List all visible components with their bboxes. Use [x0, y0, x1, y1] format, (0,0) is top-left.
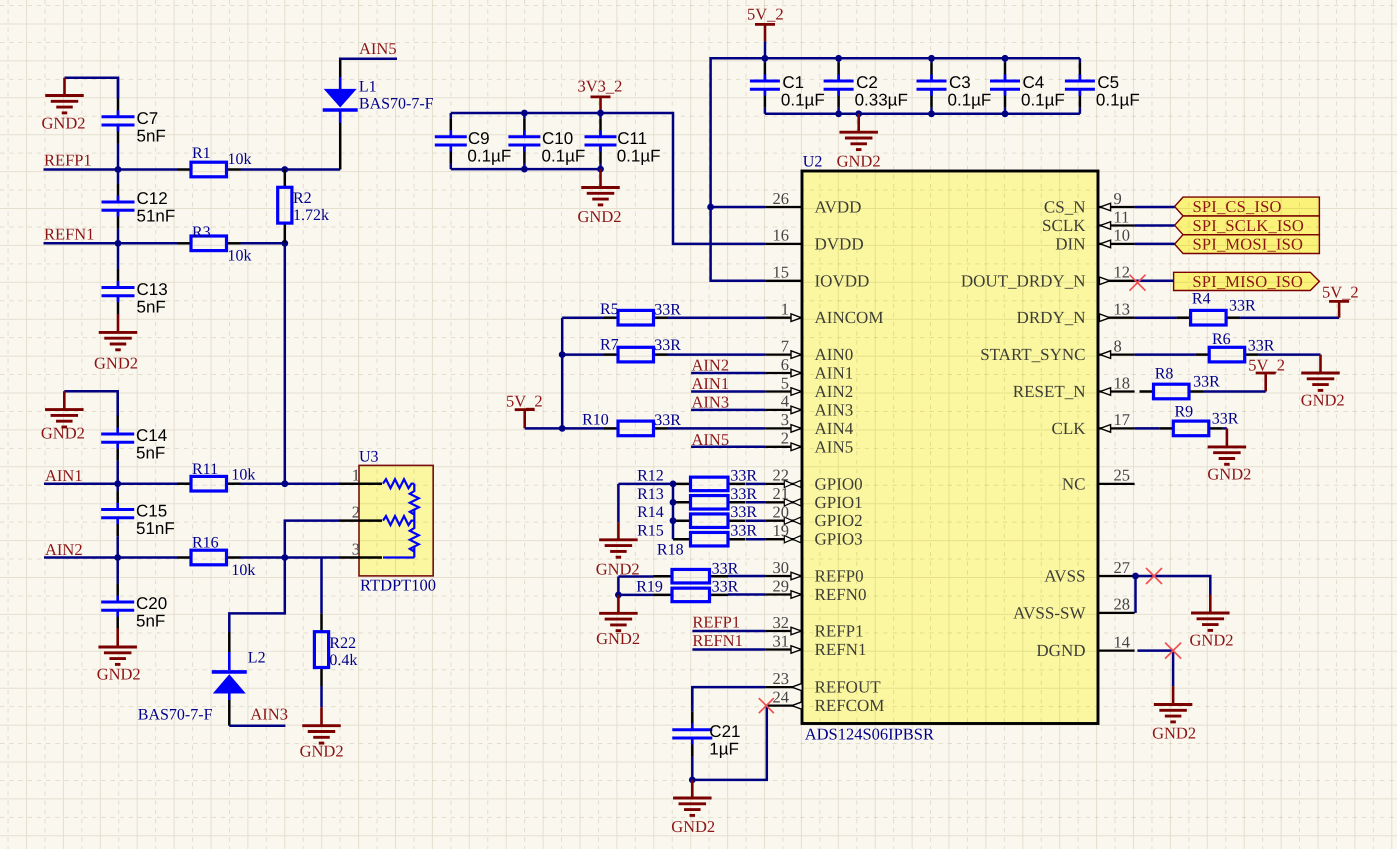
junction gpio bus R12	[670, 481, 677, 488]
svg-text:GND2: GND2	[1207, 464, 1251, 483]
no-ERC pin 27	[1146, 568, 1162, 584]
capacitor C13	[102, 243, 135, 314]
power symbol 5V_2 mid-right	[1256, 373, 1276, 392]
U2 pin 31 (REFN1)	[765, 646, 802, 654]
wire REFCOM down	[692, 706, 767, 780]
port SPI_MISO_ISO	[1174, 272, 1320, 290]
wire REFN1 vertical to AIN1	[284, 243, 287, 483]
junction bottom bus x=838.6	[835, 110, 842, 117]
svg-text:10k: 10k	[231, 467, 255, 484]
ground GND2 under C2	[839, 114, 878, 150]
resistor R3	[177, 236, 241, 251]
svg-text:ADS124S06IPBSR: ADS124S06IPBSR	[805, 725, 934, 744]
wire R19 row29 left	[618, 594, 653, 597]
wire R1 to L1	[241, 168, 341, 171]
power symbol 5V_2 mid-left	[515, 410, 535, 429]
U2 pin 11 (SCLK)	[1098, 222, 1135, 230]
wire AIN1	[44, 482, 177, 485]
svg-text:U2: U2	[803, 154, 823, 171]
resistor R8	[1140, 384, 1204, 399]
port SPI_CS_ISO	[1175, 197, 1320, 216]
resistor R9	[1159, 421, 1223, 436]
capacitor C14	[101, 391, 134, 484]
junction C11 bottom	[597, 166, 604, 173]
svg-text:C14: C14	[136, 426, 167, 445]
svg-text:AIN3: AIN3	[815, 400, 854, 419]
svg-text:C20: C20	[136, 594, 167, 613]
svg-text:5nF: 5nF	[137, 297, 166, 316]
svg-text:BAS70-7-F: BAS70-7-F	[138, 707, 213, 724]
svg-text:R18: R18	[657, 542, 684, 559]
wire gnd to C14 top	[64, 391, 117, 416]
svg-text:DOUT_DRDY_N: DOUT_DRDY_N	[961, 271, 1086, 290]
svg-text:2: 2	[781, 429, 789, 448]
U2 pin 28 (AVSS-SW)	[1098, 612, 1135, 614]
svg-text:33R: 33R	[1193, 374, 1220, 391]
svg-text:AIN1: AIN1	[692, 374, 730, 393]
junction AIN2/L2 branch	[281, 554, 288, 561]
svg-text:10k: 10k	[228, 151, 252, 168]
svg-text:C13: C13	[137, 280, 168, 299]
U2 pin 5 (AIN2)	[765, 388, 802, 396]
U2 pin 17 (CLK)	[1098, 425, 1135, 433]
svg-text:AVDD: AVDD	[815, 198, 862, 217]
ground GND2 gpio	[599, 522, 638, 557]
U2 pin 22 (GPIO0)	[765, 480, 802, 487]
svg-text:R15: R15	[637, 523, 664, 540]
svg-text:R9: R9	[1175, 404, 1194, 421]
resistor R2	[278, 170, 292, 244]
wire AIN2 to R22	[320, 558, 323, 614]
svg-text:20: 20	[773, 503, 790, 522]
svg-text:0.1µF: 0.1µF	[1021, 91, 1065, 110]
resistor R16	[177, 550, 241, 565]
U2 pin 13 (DRDY_N)	[1098, 314, 1135, 322]
resistor R22	[314, 613, 328, 686]
svg-text:R19: R19	[636, 578, 663, 595]
wire AIN3	[229, 724, 285, 727]
svg-text:AIN5: AIN5	[359, 39, 397, 58]
wire gpio gnd drop	[617, 484, 620, 522]
svg-text:AIN2: AIN2	[45, 540, 83, 559]
resistor R10	[604, 421, 668, 436]
svg-text:3V3_2: 3V3_2	[578, 77, 623, 96]
svg-text:SPI_SCLK_ISO: SPI_SCLK_ISO	[1193, 216, 1305, 235]
U2 pin 10 (DIN)	[1098, 240, 1135, 248]
svg-text:REFN1: REFN1	[815, 640, 867, 659]
svg-text:5: 5	[781, 373, 789, 392]
wire AVDD branch	[711, 206, 766, 209]
svg-text:CS_N: CS_N	[1044, 198, 1086, 217]
svg-text:0.1µF: 0.1µF	[1096, 91, 1140, 110]
wire R12 to pin	[746, 483, 765, 486]
svg-text:33R: 33R	[730, 467, 757, 484]
U2 pin 9 (CS_N)	[1098, 203, 1135, 211]
junction bottom bus x=931.5	[928, 110, 935, 117]
svg-text:C7: C7	[137, 109, 159, 128]
svg-text:REFN1: REFN1	[44, 224, 94, 243]
U2 pin 2 (AIN5)	[765, 443, 802, 451]
svg-text:33R: 33R	[1212, 411, 1239, 428]
wire AIN2	[44, 556, 177, 559]
svg-text:C21: C21	[709, 722, 740, 741]
wire REFP1	[44, 168, 178, 171]
svg-text:18: 18	[1114, 373, 1131, 392]
resistor R5	[604, 310, 668, 325]
op-amp U2 body	[802, 171, 1098, 724]
svg-text:10k: 10k	[228, 248, 252, 265]
svg-text:7: 7	[781, 336, 789, 355]
component U3 body	[359, 465, 433, 576]
svg-text:51nF: 51nF	[136, 519, 175, 538]
wire R8 to 5V	[1203, 390, 1266, 393]
capacitor C7	[102, 78, 135, 170]
wire R14 to pin	[746, 519, 765, 522]
wire DGND to gnd	[1137, 651, 1173, 687]
junction R3/R2	[281, 240, 288, 247]
svg-text:28: 28	[1114, 595, 1131, 614]
svg-text:8: 8	[1114, 336, 1122, 355]
U2 pin 21 (GPIO1)	[765, 499, 802, 506]
U2 pin 14 (DGND)	[1098, 649, 1135, 651]
wire AIN5 to pin2	[691, 446, 765, 449]
svg-text:R4: R4	[1192, 291, 1211, 308]
svg-text:R10: R10	[582, 412, 609, 429]
svg-text:31: 31	[773, 631, 790, 650]
power symbol 3V3_2	[591, 97, 611, 114]
no-ERC pin 24	[759, 698, 774, 713]
junction gpio bus R14	[670, 517, 677, 524]
junction C10 top	[521, 110, 528, 117]
svg-text:SPI_MISO_ISO: SPI_MISO_ISO	[1192, 272, 1303, 291]
resistor R7	[604, 347, 668, 362]
svg-text:6: 6	[781, 355, 789, 374]
svg-text:SPI_MOSI_ISO: SPI_MOSI_ISO	[1193, 235, 1304, 254]
capacitor C3	[917, 58, 947, 114]
wire R13 to pin	[746, 501, 765, 504]
wire R7 left	[562, 353, 604, 356]
svg-text:33R: 33R	[730, 486, 757, 503]
capacitor C21	[672, 688, 712, 780]
ground GND2 under C11	[581, 169, 620, 205]
svg-text:AVSS-SW: AVSS-SW	[1013, 603, 1086, 622]
wire AVSS to gnd	[1136, 576, 1211, 595]
svg-text:23: 23	[773, 669, 790, 688]
svg-text:GND2: GND2	[671, 817, 715, 836]
U2 pin 4 (AIN3)	[765, 406, 802, 414]
ground GND2 under R19	[599, 595, 638, 631]
junction bottom bus x=858.7	[855, 110, 862, 117]
wire R4 to 5V	[1240, 316, 1339, 319]
svg-text:0.4k: 0.4k	[329, 652, 357, 669]
wire riser R5-R10	[561, 318, 564, 429]
wire 3V3 bus bottom	[451, 168, 601, 171]
U2 pin 30 (REFP0)	[765, 572, 802, 580]
svg-text:12: 12	[1114, 263, 1131, 282]
resistor R6	[1195, 347, 1259, 362]
ground GND2 under R6	[1301, 355, 1340, 391]
svg-text:R7: R7	[600, 337, 619, 354]
capacitor C4	[990, 58, 1020, 114]
junction REFP1/C7	[115, 166, 122, 173]
svg-text:AIN1: AIN1	[815, 364, 854, 383]
svg-text:0.1µF: 0.1µF	[542, 146, 586, 165]
svg-text:19: 19	[773, 521, 790, 540]
wire AIN2 to pin6	[691, 372, 765, 375]
svg-text:5V_2: 5V_2	[506, 392, 543, 411]
ground GND2 under C20	[98, 629, 137, 665]
diode L2	[212, 632, 247, 726]
svg-text:C3: C3	[949, 73, 971, 92]
svg-text:REFN1: REFN1	[692, 631, 742, 650]
svg-text:SCLK: SCLK	[1042, 216, 1086, 235]
junction gpio bus R13	[670, 499, 677, 506]
diode L1	[323, 60, 358, 170]
svg-text:33R: 33R	[654, 302, 681, 319]
svg-text:REFP1: REFP1	[815, 622, 864, 641]
wire R9 to gnd	[1223, 427, 1227, 430]
wire 5V stem	[764, 41, 767, 58]
svg-text:24: 24	[773, 687, 790, 706]
wire R19 left bus	[617, 577, 620, 595]
svg-text:DIN: DIN	[1055, 234, 1085, 253]
resistor R15	[673, 532, 746, 546]
svg-text:25: 25	[1114, 466, 1131, 485]
svg-text:11: 11	[1114, 207, 1130, 226]
svg-text:GPIO1: GPIO1	[815, 493, 863, 512]
ground GND2 under C21	[673, 780, 712, 816]
svg-text:33R: 33R	[730, 523, 757, 540]
capacitor C5	[1065, 58, 1095, 114]
U2 pin 16 (DVDD)	[765, 243, 802, 245]
svg-text:0.1µF: 0.1µF	[948, 91, 992, 110]
U2 pin 12 (DOUT_DRDY_N)	[1098, 277, 1135, 285]
wire R3 to R2 and down	[241, 242, 285, 245]
svg-text:GND2: GND2	[1301, 390, 1345, 409]
U2 pin 25 (NC)	[1098, 483, 1135, 485]
svg-text:GND2: GND2	[300, 742, 344, 761]
svg-text:AIN3: AIN3	[250, 704, 288, 723]
wire R19 row30 left	[618, 575, 653, 578]
U2 pin 32 (REFP1)	[765, 627, 802, 635]
U2 pin 24 (REFCOM)	[765, 702, 802, 710]
wire AIN1 to pin5	[691, 390, 765, 393]
svg-text:1: 1	[352, 466, 360, 485]
svg-text:22: 22	[773, 466, 790, 485]
U2 pin 29 (REFN0)	[765, 591, 802, 599]
ground GND2 top-left	[45, 78, 84, 113]
wire 5V bus top	[711, 58, 1080, 280]
svg-text:14: 14	[1114, 632, 1131, 651]
junction top bus x=838.6	[835, 55, 842, 62]
svg-text:SPI_CS_ISO: SPI_CS_ISO	[1193, 197, 1282, 216]
U2 pin 18 (RESET_N)	[1098, 388, 1135, 396]
junction AVDD	[707, 204, 714, 211]
resistor R13	[673, 496, 746, 510]
svg-text:33R: 33R	[654, 412, 681, 429]
svg-text:REFOUT: REFOUT	[815, 678, 882, 697]
svg-text:DRDY_N: DRDY_N	[1017, 308, 1086, 327]
junction C21/gnd	[689, 777, 696, 784]
capacitor C20	[101, 558, 134, 629]
svg-text:GND2: GND2	[578, 207, 622, 226]
junction riser/R10	[559, 425, 566, 432]
wire AIN5 top	[340, 59, 397, 60]
wire REFOUT to C21	[692, 687, 765, 704]
resistor R4	[1177, 310, 1241, 325]
junction REFN1/C12	[115, 240, 122, 247]
svg-text:0.1µF: 0.1µF	[617, 146, 661, 165]
ground GND2 mid-left	[45, 391, 84, 427]
svg-text:0.1µF: 0.1µF	[467, 146, 511, 165]
svg-text:GND2: GND2	[596, 629, 640, 648]
capacitor C15	[101, 484, 134, 558]
svg-text:21: 21	[773, 484, 790, 503]
U2 pin 15 (IOVDD)	[765, 280, 802, 282]
wire R11 to U3 pin1	[241, 482, 340, 485]
U3 pin 2	[339, 519, 382, 522]
U3 pin 3	[339, 556, 382, 559]
svg-text:AIN0: AIN0	[815, 345, 854, 364]
svg-text:CLK: CLK	[1052, 419, 1087, 438]
wire pin17 to R9	[1135, 427, 1160, 430]
svg-text:5V_2: 5V_2	[1248, 355, 1285, 374]
svg-text:U3: U3	[359, 449, 379, 466]
wire R7 to AIN0	[668, 353, 766, 356]
svg-text:R5: R5	[600, 301, 619, 318]
junction AIN2/C15	[114, 554, 121, 561]
svg-text:5nF: 5nF	[137, 126, 166, 145]
wire CS_N to port	[1135, 206, 1175, 209]
svg-text:R12: R12	[637, 467, 664, 484]
wire pin13 to R4	[1135, 316, 1177, 319]
ground GND2 under C13	[99, 314, 138, 350]
svg-text:AIN1: AIN1	[45, 466, 83, 485]
U2 pin 20 (GPIO2)	[765, 517, 802, 524]
svg-text:GND2: GND2	[94, 354, 138, 373]
svg-text:32: 32	[773, 613, 790, 632]
wire pin8 to R6	[1135, 353, 1196, 356]
wire 5V bus bottom	[765, 113, 1080, 116]
junction riser/R7	[559, 351, 566, 358]
svg-text:GND2: GND2	[97, 665, 141, 684]
svg-text:R3: R3	[192, 224, 211, 241]
U2 pin 1 (AINCOM)	[765, 314, 802, 322]
svg-text:C11: C11	[617, 129, 647, 148]
svg-text:30: 30	[773, 558, 790, 577]
svg-text:R2: R2	[293, 190, 312, 207]
svg-text:REFN0: REFN0	[815, 585, 867, 604]
wire DIN to port	[1135, 243, 1175, 246]
capacitor C10	[508, 113, 540, 169]
resistor R12	[673, 477, 746, 491]
wire R10 to AIN4	[668, 427, 766, 430]
svg-text:33R: 33R	[712, 579, 739, 596]
svg-text:GPIO2: GPIO2	[815, 511, 863, 530]
svg-text:5V_2: 5V_2	[747, 5, 784, 24]
wire SCLK to port	[1135, 224, 1175, 227]
svg-text:C1: C1	[782, 73, 804, 92]
U2 pin 8 (START_SYNC)	[1098, 351, 1135, 359]
junction top bus x=764.9	[762, 55, 769, 62]
ground GND2 under DGND	[1154, 686, 1193, 722]
U3 internal RTD element	[383, 479, 419, 557]
svg-text:GND2: GND2	[1152, 724, 1196, 743]
U2 pin 27 (AVSS)	[1098, 575, 1135, 577]
svg-text:GPIO3: GPIO3	[815, 530, 863, 549]
power symbol 5V_2 right	[1329, 301, 1349, 317]
resistor R11	[177, 476, 241, 491]
wire gnd to C7 top	[65, 78, 119, 99]
svg-text:L2: L2	[248, 650, 266, 667]
svg-text:REFCOM: REFCOM	[815, 696, 885, 715]
svg-text:0.33µF: 0.33µF	[855, 91, 908, 110]
svg-text:C2: C2	[856, 73, 878, 92]
U2 pin 26 (AVDD)	[765, 206, 802, 208]
junction top bus x=931.5	[928, 55, 935, 62]
U2 pin 3 (AIN4)	[765, 425, 802, 433]
svg-text:51nF: 51nF	[137, 206, 176, 225]
svg-text:NC: NC	[1062, 474, 1086, 493]
wire 3V3 bus top	[451, 113, 765, 244]
svg-text:17: 17	[1114, 410, 1131, 429]
junction AIN1/vertical	[281, 480, 288, 487]
svg-text:RTDPT100: RTDPT100	[360, 576, 436, 595]
svg-text:REFP1: REFP1	[692, 612, 740, 631]
wire R19a to pin30	[728, 575, 765, 578]
svg-text:DVDD: DVDD	[815, 234, 864, 253]
svg-text:AIN2: AIN2	[692, 356, 730, 375]
svg-text:C5: C5	[1097, 73, 1119, 92]
svg-text:AINCOM: AINCOM	[815, 308, 884, 327]
junction C11 top	[597, 110, 604, 117]
svg-text:9: 9	[1114, 189, 1122, 208]
svg-text:3: 3	[781, 410, 789, 429]
svg-text:L1: L1	[359, 79, 377, 96]
svg-text:10: 10	[1114, 226, 1131, 245]
svg-text:16: 16	[773, 226, 790, 245]
svg-text:R14: R14	[637, 504, 664, 521]
resistor R14	[673, 514, 746, 528]
wire R5 to AINCOM	[668, 316, 766, 319]
svg-text:AIN5: AIN5	[815, 437, 854, 456]
svg-text:R13: R13	[637, 486, 664, 503]
junction AIN1/C14	[114, 480, 121, 487]
svg-text:IOVDD: IOVDD	[815, 271, 870, 290]
svg-text:1µF: 1µF	[709, 740, 739, 759]
svg-text:GND2: GND2	[837, 152, 881, 171]
wire R15 to pin	[746, 538, 765, 541]
svg-text:33R: 33R	[654, 337, 681, 354]
wire AVSS to AVSS-SW	[1134, 576, 1137, 613]
svg-text:5nF: 5nF	[136, 612, 165, 631]
U2 pin 6 (AIN1)	[765, 369, 802, 377]
capacitor C2	[824, 58, 854, 114]
junction C10 bottom	[521, 166, 528, 173]
svg-text:15: 15	[773, 263, 790, 282]
svg-text:C9: C9	[468, 129, 490, 148]
svg-text:R11: R11	[192, 461, 218, 478]
capacitor C12	[102, 170, 135, 244]
junction AVSS	[1132, 573, 1139, 580]
capacitor C11	[585, 113, 617, 169]
svg-text:AIN2: AIN2	[815, 382, 854, 401]
svg-text:START_SYNC: START_SYNC	[980, 345, 1085, 364]
svg-text:BAS70-7-F: BAS70-7-F	[359, 95, 434, 112]
svg-text:GND2: GND2	[42, 114, 86, 133]
svg-text:GND2: GND2	[1190, 631, 1234, 650]
power symbol 5V_2 top	[755, 24, 775, 41]
